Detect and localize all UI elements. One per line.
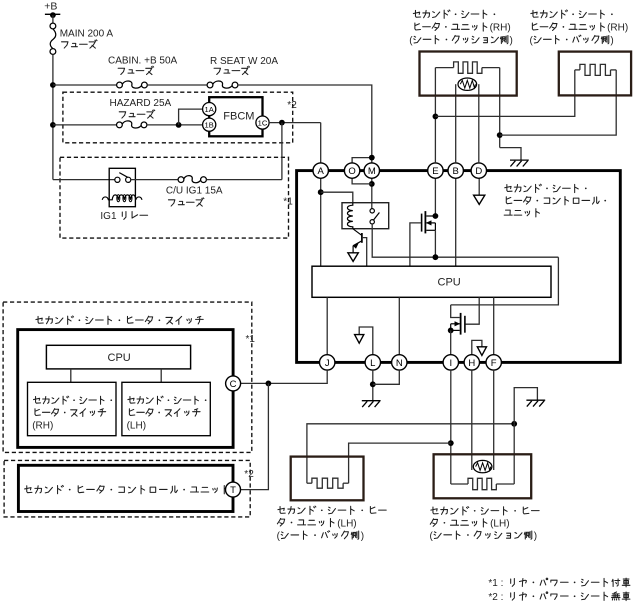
svg-text:CABIN. +B 50A: CABIN. +B 50A xyxy=(108,56,178,67)
wire xyxy=(493,370,495,470)
svg-text:): ) xyxy=(361,531,364,542)
CPU (switch) xyxy=(46,345,190,369)
wire xyxy=(52,15,54,23)
connector I xyxy=(443,355,458,370)
node xyxy=(50,122,56,128)
heater element (LH back) xyxy=(307,482,312,484)
svg-text:1A: 1A xyxy=(205,105,215,114)
pin 1B xyxy=(203,118,216,131)
svg-text:M: M xyxy=(368,166,376,177)
wire xyxy=(179,109,203,125)
svg-text:J: J xyxy=(325,358,330,369)
wire xyxy=(500,70,617,135)
node xyxy=(369,181,375,187)
switch block LH xyxy=(122,382,210,435)
+B terminal xyxy=(45,13,60,15)
svg-text:D: D xyxy=(475,166,482,177)
wire xyxy=(241,370,328,383)
svg-text:): ) xyxy=(610,35,613,46)
wire xyxy=(131,179,178,181)
arrow to ground (emitter) xyxy=(348,253,358,262)
svg-text:C/U IG1 15A: C/U IG1 15A xyxy=(166,186,223,197)
svg-text:*2 :: *2 : xyxy=(488,592,503,603)
wire xyxy=(435,70,574,117)
svg-text:(RH): (RH) xyxy=(490,23,511,34)
seat heater switch dashed enclosure (*1) xyxy=(3,302,252,452)
connector T xyxy=(226,482,241,497)
svg-text:HAZARD 25A: HAZARD 25A xyxy=(110,98,172,109)
wire xyxy=(372,370,374,401)
svg-text:1C: 1C xyxy=(258,118,268,127)
node xyxy=(279,120,285,126)
wire xyxy=(53,124,117,126)
wire xyxy=(349,443,451,483)
wire gate to CPU xyxy=(466,297,480,324)
wire xyxy=(307,424,514,483)
connector N xyxy=(392,355,407,370)
svg-text:*1: *1 xyxy=(283,197,293,208)
wire xyxy=(320,123,322,163)
svg-text:CPU: CPU xyxy=(438,277,461,289)
svg-text:(LH): (LH) xyxy=(490,519,509,530)
svg-text:(RH): (RH) xyxy=(32,420,53,431)
wire xyxy=(500,148,521,160)
thermistor (LH cushion) xyxy=(473,460,492,472)
wire xyxy=(451,305,460,318)
wire xyxy=(493,297,495,354)
svg-text:F: F xyxy=(491,358,497,369)
second seat heater control unit box xyxy=(297,171,621,363)
wire xyxy=(455,178,457,266)
svg-text:1B: 1B xyxy=(205,120,214,129)
wire xyxy=(478,178,480,195)
svg-text:A: A xyxy=(318,166,325,177)
ground xyxy=(362,400,381,402)
wire xyxy=(471,370,473,470)
label LH cushion unit xyxy=(431,507,539,515)
second seat heater unit RH cushion box xyxy=(420,52,517,96)
connector D xyxy=(471,163,486,178)
svg-text:L: L xyxy=(370,358,375,369)
wire gate to CPU xyxy=(410,223,421,266)
svg-text:*2: *2 xyxy=(287,100,297,111)
fuse CABIN. +B 50A xyxy=(122,81,141,88)
fusible link MAIN 200A xyxy=(50,29,56,49)
ground xyxy=(510,159,529,161)
arrow above H xyxy=(472,340,482,354)
connector C xyxy=(226,376,241,391)
second seat heater switch box xyxy=(18,330,233,448)
arrow head xyxy=(477,347,486,356)
wire xyxy=(147,124,203,126)
wire xyxy=(352,158,372,164)
fuse C/U IG1 15A xyxy=(184,176,201,183)
wire xyxy=(320,178,322,266)
connector J xyxy=(320,355,335,370)
wire switch to source node xyxy=(372,224,558,257)
wire xyxy=(241,383,269,489)
IG1 relay dashed enclosure (*1) xyxy=(60,157,289,238)
svg-text:R SEAT W 20A: R SEAT W 20A xyxy=(210,56,278,67)
heater element (RH back) xyxy=(575,69,580,71)
wire xyxy=(52,54,54,179)
svg-text:T: T xyxy=(230,485,236,496)
fuse R SEAT W 20A xyxy=(213,81,232,88)
svg-text:C: C xyxy=(230,379,237,390)
relay K2 (in control unit) xyxy=(342,203,389,229)
label RH back unit xyxy=(531,10,613,18)
wire xyxy=(70,369,72,382)
connector F xyxy=(486,355,501,370)
svg-text:*2: *2 xyxy=(244,469,254,480)
connector E xyxy=(428,163,443,178)
svg-text:IG1: IG1 xyxy=(100,211,117,222)
second seat heater unit LH cushion box xyxy=(434,454,532,498)
relay IG1 K1 xyxy=(109,168,135,206)
wire xyxy=(451,257,559,305)
transistor Q2 (MOSFET) xyxy=(424,211,426,233)
wire xyxy=(450,330,452,354)
wire xyxy=(53,179,115,181)
FBCM module U1 xyxy=(209,97,262,136)
svg-text:+B: +B xyxy=(44,0,57,12)
svg-text:*1: *1 xyxy=(246,334,256,345)
wire xyxy=(53,84,117,86)
fuse HAZARD 25A xyxy=(122,121,141,128)
svg-text:(RH): (RH) xyxy=(607,23,628,34)
node xyxy=(497,132,503,138)
label second heater control unit xyxy=(25,485,228,493)
wire xyxy=(450,370,452,484)
wire xyxy=(514,388,537,424)
wire xyxy=(434,230,436,257)
heater element (LH cushion) xyxy=(451,483,468,485)
arrow above L xyxy=(359,327,373,355)
svg-text:): ) xyxy=(510,35,513,46)
wire xyxy=(238,85,372,163)
connector O xyxy=(344,163,359,178)
wire xyxy=(499,68,501,148)
heater element (RH cushion) xyxy=(435,67,453,69)
node xyxy=(369,155,375,161)
pin 1C xyxy=(256,116,269,129)
svg-text:MAIN 200 A: MAIN 200 A xyxy=(60,29,114,40)
wire xyxy=(326,297,328,354)
svg-text:H: H xyxy=(468,358,475,369)
node xyxy=(176,122,182,128)
wire xyxy=(281,123,283,180)
svg-text:CPU: CPU xyxy=(108,352,131,364)
svg-text:(LH): (LH) xyxy=(337,518,356,529)
node xyxy=(370,381,376,387)
connector M xyxy=(364,163,379,178)
wire xyxy=(321,192,353,203)
second heater control unit dashed enclosure (*2) xyxy=(4,460,250,517)
node xyxy=(50,82,56,88)
second heater control unit box xyxy=(18,465,233,511)
svg-text:B: B xyxy=(453,166,459,177)
node xyxy=(511,421,517,427)
node xyxy=(448,440,454,446)
svg-text:O: O xyxy=(348,166,355,177)
switch block RH xyxy=(28,382,117,435)
transistor Q1 xyxy=(353,229,362,236)
wire xyxy=(147,84,207,86)
label switch assembly xyxy=(36,316,203,324)
label LH back unit xyxy=(278,506,386,514)
wire xyxy=(434,68,436,163)
svg-text:*1 :: *1 : xyxy=(488,578,503,589)
connector A xyxy=(313,163,328,178)
arrow (connector D continues) xyxy=(474,195,485,204)
transistor Q3 (MOSFET) xyxy=(460,313,462,335)
wire xyxy=(269,122,321,124)
second seat heater unit RH back box xyxy=(559,52,631,96)
connector H xyxy=(464,355,479,370)
svg-text:I: I xyxy=(449,358,452,369)
svg-text:(LH): (LH) xyxy=(127,420,146,431)
node xyxy=(266,381,272,387)
wire xyxy=(160,369,162,382)
label RH cushion unit xyxy=(413,10,495,18)
connector L xyxy=(365,355,380,370)
node xyxy=(318,189,324,195)
wire xyxy=(352,178,372,184)
thermistor (RH cushion) xyxy=(455,84,457,163)
wire xyxy=(206,179,282,181)
node xyxy=(433,114,439,120)
node xyxy=(433,254,439,260)
wire xyxy=(371,163,373,208)
wire xyxy=(398,297,400,354)
wire xyxy=(434,178,436,216)
connector B xyxy=(448,163,463,178)
second seat heater unit LH back box xyxy=(291,457,364,501)
node xyxy=(433,213,439,219)
wire base to CPU xyxy=(362,238,367,267)
wire xyxy=(373,370,400,384)
wire xyxy=(513,424,515,484)
svg-text:N: N xyxy=(396,358,403,369)
CPU (control unit) xyxy=(312,266,551,297)
pin 1A xyxy=(203,103,216,116)
svg-text:FBCM: FBCM xyxy=(223,111,254,123)
arrow head xyxy=(355,335,364,344)
svg-text:E: E xyxy=(432,166,438,177)
node xyxy=(448,328,454,334)
svg-text:): ) xyxy=(534,531,537,542)
FBCM dashed enclosure (*2) xyxy=(63,92,293,143)
label second seat heater control unit xyxy=(505,184,587,192)
ground xyxy=(526,399,545,401)
